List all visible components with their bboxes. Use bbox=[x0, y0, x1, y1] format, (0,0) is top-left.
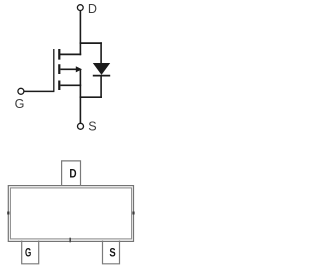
svg-text:D: D bbox=[69, 167, 76, 181]
svg-text:G: G bbox=[15, 97, 25, 111]
svg-text:G: G bbox=[25, 245, 31, 259]
svg-text:S: S bbox=[88, 119, 96, 133]
svg-text:S: S bbox=[109, 245, 115, 259]
svg-text:D: D bbox=[88, 2, 97, 16]
